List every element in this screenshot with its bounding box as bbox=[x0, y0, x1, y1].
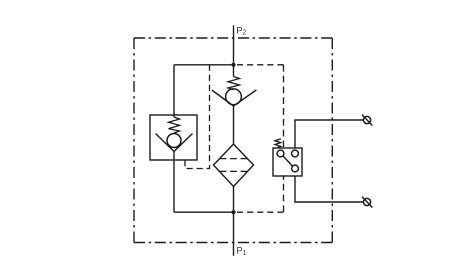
check valve V2 spring bbox=[228, 77, 240, 90]
filter F1 body (diamond) bbox=[214, 144, 254, 187]
filter F1 element (dashed lines) bbox=[220, 159, 247, 172]
check valve V1 seat bbox=[156, 134, 193, 152]
svg-text:P2: P2 bbox=[236, 25, 246, 36]
node B (bottom junction dot) bbox=[231, 210, 235, 214]
port P2 label bbox=[236, 25, 246, 36]
wire: left branch down to bypass check valve V1 bbox=[173, 65, 175, 117]
wire: top branch left from node A bbox=[174, 64, 234, 66]
check valve V1 spring bbox=[169, 117, 180, 133]
pressure switch S1 body bbox=[273, 148, 302, 176]
pilot line (dashed) from bypass check valve V1 bbox=[185, 65, 210, 169]
pressure switch S1 contact pivots bbox=[277, 150, 298, 172]
filter unit boundary (dashed box, right portion) bbox=[234, 65, 284, 212]
electrical terminal T1 bbox=[362, 115, 372, 126]
port P1 label bbox=[236, 246, 246, 257]
pressure switch S1 spring bbox=[275, 139, 281, 148]
pressure switch S1 lever bbox=[283, 156, 293, 166]
check valve V2 seat bbox=[212, 90, 256, 106]
check valve V1 enclosure box bbox=[150, 115, 197, 160]
enclosure boundary (dash-dot box) bbox=[134, 38, 332, 243]
wire: bottom branch right to node B bbox=[174, 211, 234, 213]
wire: V2 to filter F1 bbox=[233, 106, 235, 145]
wire: main line from port P2 down to check valve V2 bbox=[233, 25, 235, 76]
wire: filter F1 down to port P1 bbox=[233, 187, 235, 256]
wire: switch lower contact to terminal T2 bbox=[295, 176, 363, 202]
wire: V1 to bottom branch bbox=[173, 152, 175, 213]
svg-text:P1: P1 bbox=[236, 246, 246, 257]
node A (top junction dot) bbox=[231, 63, 235, 67]
check valve V1 ball bbox=[167, 134, 181, 148]
electrical terminal T2 bbox=[362, 197, 372, 208]
check valve V2 ball bbox=[226, 89, 242, 105]
wire: switch upper contact to terminal T1 bbox=[295, 120, 363, 148]
